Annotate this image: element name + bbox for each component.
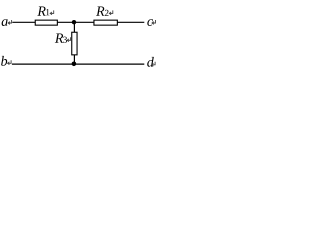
wire: R3 bottom to bottom rail bbox=[73, 55, 75, 64]
line-break mark after c bbox=[152, 20, 156, 24]
node junction dot top bbox=[72, 20, 76, 24]
resistor R3 bbox=[72, 32, 77, 55]
terminal label a bbox=[2, 19, 8, 26]
wire: R1 right to R2 left (through node) bbox=[58, 21, 94, 23]
label R1 bbox=[37, 7, 45, 16]
line-break mark after d bbox=[152, 62, 156, 66]
resistor R2 bbox=[94, 20, 117, 25]
node junction dot bottom bbox=[72, 62, 77, 67]
label R2 bbox=[96, 7, 104, 16]
line-break mark after R1 bbox=[50, 10, 54, 14]
wire: node down to R3 top bbox=[73, 22, 75, 32]
terminal label b bbox=[1, 56, 7, 66]
line-break mark after b bbox=[8, 60, 12, 64]
wire: terminal a to R1 left bbox=[12, 21, 35, 23]
line-break mark after a bbox=[8, 20, 12, 24]
wire: bottom rail b to d bbox=[12, 63, 144, 65]
resistor R1 bbox=[35, 20, 57, 25]
line-break mark after R2 bbox=[109, 10, 113, 14]
label R3 bbox=[55, 34, 63, 43]
terminal label c bbox=[147, 19, 153, 26]
wire: R2 right to terminal c bbox=[118, 21, 145, 23]
terminal label d bbox=[147, 57, 154, 67]
line-break mark after R3 bbox=[67, 37, 71, 41]
